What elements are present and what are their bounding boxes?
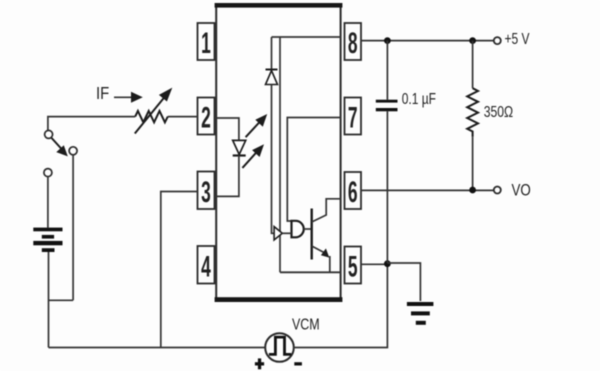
wire terminal b down [72,155,74,300]
svg-text:7: 7 [348,102,358,135]
pin 8 [345,23,362,61]
pin 7 [345,98,362,136]
svg-text:+5 V: +5 V [505,29,530,47]
svg-text:4: 4 [201,251,211,284]
pin 4 [198,246,215,284]
transistor Q1 collector [312,199,342,222]
svg-text:VCM: VCM [292,316,320,334]
resistor R2 lead top [472,41,474,89]
internal pin7 enable line [287,118,341,222]
wire pin2 to variable resistor and switch [168,116,198,118]
switch S1 terminal b [69,147,77,155]
VO terminal [494,187,501,194]
svg-text:350Ω: 350Ω [484,103,513,121]
wire battery bottom, branch to terminal b, down to bottom node [48,252,50,348]
svg-text:1: 1 [201,27,211,60]
light arrow lower [242,144,264,168]
gate U3 [292,221,304,238]
wire resistor to switch corner [48,117,135,130]
internal line B [279,37,281,272]
capacitor C1 [376,100,398,112]
internal line A lower to amplifier [272,85,275,234]
internal line A (photodiode branch) [271,37,273,70]
switch blade arrow [52,138,68,156]
junction dot pin5 node [384,260,391,267]
pin 6 [345,172,362,210]
bottom wire to VCM source [49,347,266,349]
wire pin8 to +5V [361,40,494,42]
IF arrow [114,92,143,103]
plus label [255,358,264,369]
wire amplifier to gate [282,232,291,234]
pin 1 [198,23,215,61]
wire pin6 to VO [361,189,494,191]
battery BT1 [33,228,62,252]
pin 5 [345,247,362,285]
+5V terminal [494,37,501,44]
capacitor C1 lead top [386,41,388,100]
wire LED cathode to pin3 internal [216,156,239,197]
svg-text:0.1 µF: 0.1 µF [402,89,437,107]
minus label [294,362,302,365]
svg-text:6: 6 [348,176,358,209]
resistor R2 350ohm zigzag [467,88,478,137]
transistor Q1 emitter with arrow [312,246,330,272]
arrow through R1 [135,88,173,134]
variable resistor R1 zigzag [135,111,168,122]
IC body U1 [215,3,343,302]
wire VCM right to pin5 node [294,264,388,348]
wire pin5 to node [361,263,387,265]
photodiode D2 [266,70,278,85]
junction dot resistor top [469,37,476,44]
switch S1 terminal c (battery side) [44,169,52,177]
wire pin2 internal to LED [216,118,239,140]
pin 2 [198,98,215,136]
VCM source V1 [265,333,294,362]
switch S1 terminal a (common) [45,130,53,138]
transistor Q1 base bar [311,209,313,260]
wire terminal c to battery [47,177,49,228]
ground [407,302,434,325]
svg-text:IF: IF [96,84,109,103]
amplifier U2 [274,227,282,240]
internal VCC line from pin8 [272,36,342,38]
svg-text:VO: VO [512,181,531,200]
capacitor C1 lead bottom to pin5 node [386,111,388,263]
svg-text:5: 5 [348,251,358,284]
wire node to ground [387,263,420,301]
pulse waveform symbol [269,337,291,354]
svg-text:8: 8 [348,27,358,60]
light arrow upper [246,114,268,137]
LED D1 [233,140,246,155]
svg-text:2: 2 [201,102,211,135]
junction dot cap top [384,37,391,44]
wire branch at y300 to switch pole b [49,299,74,301]
wire gate output to base [304,228,312,230]
internal ground line to pin5 [280,271,342,273]
junction dot resistor bottom [469,187,476,194]
resistor R2 lead bottom [472,137,474,190]
pin 3 [198,172,215,210]
svg-text:3: 3 [201,176,211,209]
wire pin3 left and down to bottom wire [161,192,198,348]
